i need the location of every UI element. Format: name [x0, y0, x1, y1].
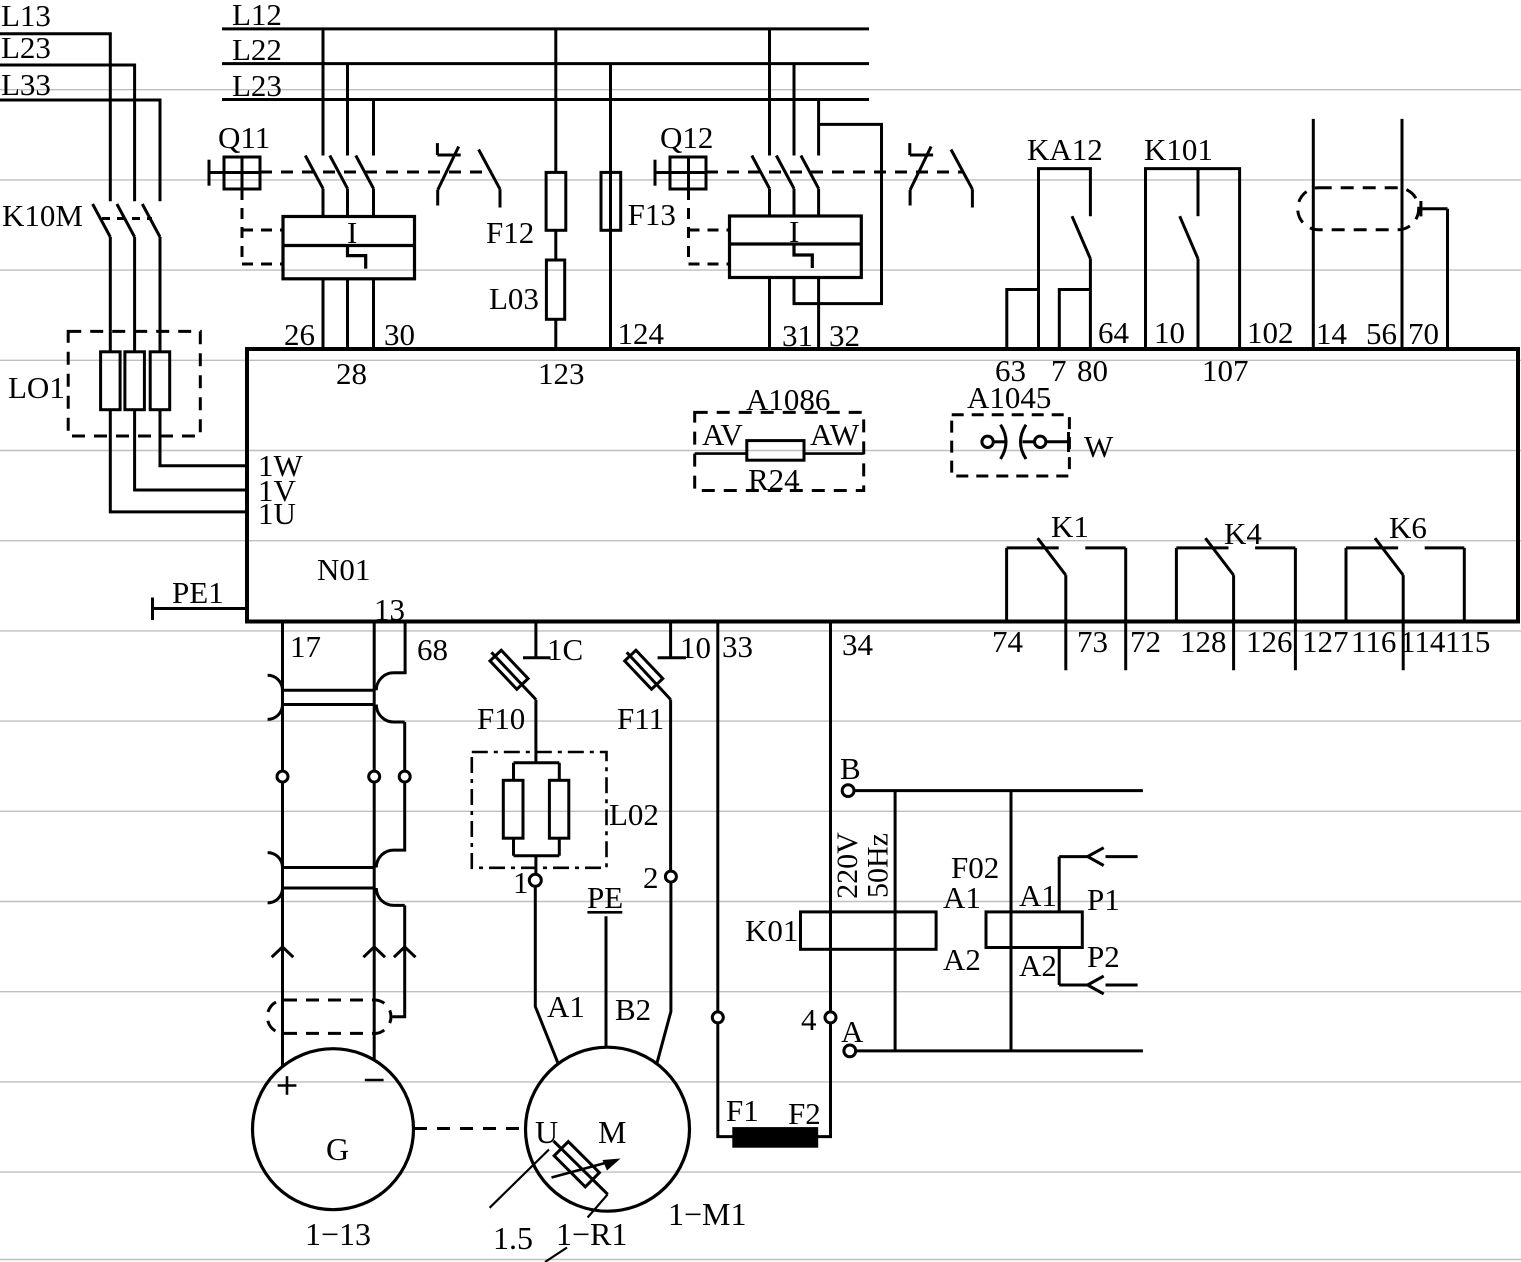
wire L33 — [0, 100, 160, 201]
svg-text:10: 10 — [1154, 315, 1185, 350]
dashed cable clamp at generator — [267, 1000, 391, 1033]
svg-text:B: B — [840, 751, 861, 786]
svg-text:A2: A2 — [1019, 948, 1057, 983]
connector A1045 right pole — [1035, 436, 1046, 447]
rheostat 1-R1 lead — [554, 1141, 608, 1194]
wire 68 drain between screens — [403, 722, 406, 771]
connector pole circle drain — [399, 771, 410, 782]
svg-text:KA12: KA12 — [1027, 132, 1103, 167]
reactor LO1 coil 2 — [125, 352, 144, 410]
contactor I (left) body — [283, 217, 415, 279]
svg-text:G: G — [326, 1131, 349, 1167]
wire B2 to motor — [657, 882, 671, 1064]
breaker Q12 trip release symbol — [910, 143, 933, 205]
breaker Q12 pole 3 contact — [801, 156, 819, 217]
svg-text:AV: AV — [702, 417, 743, 452]
wire 68 shield drain upper — [376, 622, 405, 691]
reactor LO1 coil 3 — [150, 352, 170, 410]
breaker Q12 auxiliary blade — [951, 150, 972, 208]
wire 31 to N01 — [768, 278, 771, 350]
terminal B circle — [842, 785, 854, 797]
resistor L02 top bus — [514, 763, 560, 781]
svg-text:127: 127 — [1302, 624, 1349, 659]
svg-text:W: W — [1084, 429, 1114, 464]
svg-text:M: M — [598, 1114, 626, 1150]
resistor block L02 dash-dot enclosure — [472, 752, 607, 868]
svg-text:30: 30 — [384, 317, 415, 352]
svg-text:56: 56 — [1366, 316, 1397, 351]
wire 14 — [1312, 119, 1315, 350]
svg-text:33: 33 — [722, 629, 753, 664]
svg-text:R24: R24 — [748, 462, 800, 497]
wire armature to generator — [373, 622, 376, 1060]
controller N01 enclosure — [247, 349, 1518, 622]
wire 17 to generator — [281, 622, 284, 1068]
svg-text:PE1: PE1 — [172, 575, 224, 610]
svg-text:L12: L12 — [232, 0, 282, 32]
svg-text:P1: P1 — [1087, 882, 1120, 917]
breaker Q11 linkage dashed line — [260, 171, 492, 174]
wire L23 to Q11 pole3 — [372, 100, 375, 156]
cable screen lower symbol — [268, 853, 405, 906]
cable screen upper symbol — [268, 675, 405, 722]
wire L13 — [0, 34, 110, 202]
svg-text:A1: A1 — [547, 989, 585, 1024]
breaker Q12 operating head — [655, 157, 706, 189]
svg-text:A2: A2 — [943, 942, 981, 977]
svg-text:1.5: 1.5 — [493, 1220, 533, 1256]
svg-text:L23: L23 — [1, 30, 51, 65]
wire R24 to AW — [804, 452, 864, 455]
svg-text:A1: A1 — [1019, 878, 1057, 913]
wire 26 to N01 — [322, 279, 325, 349]
svg-text:F12: F12 — [486, 215, 534, 250]
wire F10 to L02 — [534, 700, 537, 763]
svg-text:70: 70 — [1408, 316, 1439, 351]
svg-text:123: 123 — [538, 356, 585, 391]
svg-text:124: 124 — [618, 316, 665, 351]
wire PE1 — [153, 598, 248, 621]
svg-text:64: 64 — [1098, 315, 1130, 350]
svg-text:50Hz: 50Hz — [862, 833, 895, 898]
wire 32 to N01 — [817, 278, 820, 350]
fuse link F1-F2 black body — [733, 1128, 818, 1148]
svg-text:73: 73 — [1077, 624, 1108, 659]
wire 68 drain to clamp — [393, 905, 405, 1016]
module A1086 dashed enclosure — [695, 412, 864, 490]
svg-text:AW: AW — [810, 417, 860, 452]
svg-text:13: 13 — [374, 592, 405, 627]
wire 33 upper — [716, 622, 719, 1013]
breaker Q12 linkage dashes to contactor — [689, 189, 730, 264]
svg-text:B2: B2 — [615, 992, 651, 1027]
inductor L03 body — [546, 260, 564, 319]
resistor L02 element 1 — [503, 780, 523, 838]
wire bypass loop pole2 to pole3 input — [794, 124, 882, 303]
svg-text:68: 68 — [417, 632, 448, 667]
terminal A circle — [844, 1045, 856, 1057]
breaker Q12 pole 2 contact — [776, 156, 794, 217]
svg-text:F2: F2 — [788, 1096, 821, 1131]
wire 68 drain to lower screen — [376, 782, 404, 867]
bus A — [856, 1049, 1143, 1052]
resistor L02 element 2 — [549, 780, 568, 838]
motor M circle — [526, 1047, 690, 1211]
svg-text:A1: A1 — [943, 880, 981, 915]
wire 56 — [1401, 119, 1404, 350]
rheostat 1-R1 body — [554, 1142, 599, 1187]
svg-text:126: 126 — [1246, 624, 1293, 659]
svg-text:L13: L13 — [1, 0, 51, 33]
svg-text:L33: L33 — [1, 67, 51, 102]
leader stroke bottom — [545, 1248, 567, 1262]
svg-text:26: 26 — [284, 317, 315, 352]
reactor LO1 coil 1 — [101, 352, 121, 410]
resistor R24 body — [747, 441, 804, 461]
svg-text:34: 34 — [842, 627, 874, 662]
contactor K10M pole 1 — [93, 204, 111, 331]
svg-text:1C: 1C — [547, 632, 583, 667]
contactor K10M pole 3 — [142, 204, 160, 331]
breaker Q11 pole 1 contact — [305, 156, 323, 217]
fuse switch F10 blade — [491, 652, 536, 699]
svg-text:116: 116 — [1351, 624, 1396, 659]
plug contact P2 — [1059, 948, 1137, 994]
wire L22 to Q11 pole2 — [346, 64, 349, 156]
svg-text:LO1: LO1 — [8, 370, 65, 405]
terminal 1 circle — [529, 874, 541, 886]
svg-text:F13: F13 — [628, 197, 676, 232]
wire L22 to Q12 pole2 — [793, 64, 796, 156]
fuse switch F10 fixed contact — [523, 622, 551, 658]
svg-text:102: 102 — [1247, 315, 1294, 350]
fuse switch F11 body — [625, 650, 663, 689]
breaker Q12 pole 1 contact — [752, 156, 770, 217]
relay coil F02 body — [986, 912, 1082, 948]
svg-text:L22: L22 — [232, 32, 282, 67]
wire B to A through K01 — [894, 791, 897, 1051]
svg-text:Q11: Q11 — [218, 120, 270, 155]
wire 63 jumper — [1007, 290, 1039, 351]
wire L23 — [0, 65, 135, 201]
svg-text:1−M1: 1−M1 — [668, 1196, 747, 1232]
arrow chevron armature — [363, 947, 385, 957]
breaker Q11 auxiliary blade — [479, 150, 500, 208]
svg-text:A1045: A1045 — [967, 380, 1051, 415]
svg-text:K101: K101 — [1144, 132, 1213, 167]
wire LO1 phase3 down to 1W — [160, 331, 247, 465]
generator G circle — [253, 1049, 414, 1210]
svg-text:K1: K1 — [1051, 509, 1089, 544]
rheostat 1-R1 arrow — [552, 1159, 621, 1178]
resistor L02 bottom bus — [514, 838, 560, 874]
svg-text:K10M: K10M — [2, 198, 83, 233]
svg-text:74: 74 — [992, 624, 1024, 659]
connector pole circle wire17 — [277, 771, 288, 782]
module A1045 dashed enclosure — [952, 415, 1070, 476]
fuse F12 body — [546, 172, 566, 230]
wire A1 to motor — [535, 886, 558, 1063]
svg-text:4: 4 — [801, 1002, 817, 1037]
generator plus sign — [278, 1076, 297, 1095]
breaker Q11 operating head — [209, 157, 260, 189]
wire 33 to F1 — [718, 1023, 733, 1137]
wire PE to motor — [605, 916, 608, 1047]
fuse F12 wire — [554, 29, 557, 349]
relay contact K6 — [1346, 538, 1464, 670]
svg-text:17: 17 — [290, 629, 321, 664]
svg-text:1−R1: 1−R1 — [556, 1216, 627, 1252]
arrow chevron drain — [394, 947, 416, 957]
wire LO1 phase2 down to 1V — [135, 331, 247, 490]
breaker Q11 pole 2 contact — [330, 156, 348, 217]
dashed cable clamp enclosure — [1298, 188, 1419, 230]
terminal 2 circle — [665, 871, 676, 882]
svg-text:1−13: 1−13 — [305, 1216, 371, 1252]
svg-text:1U: 1U — [258, 496, 296, 531]
fuse F13 wire — [609, 64, 612, 349]
relay contact K1 — [1007, 538, 1126, 670]
svg-text:7: 7 — [1051, 353, 1067, 388]
svg-text:PE: PE — [587, 880, 623, 915]
arrow chevron wire17 — [272, 947, 294, 957]
fuse switch F11 fixed contact — [658, 622, 686, 658]
svg-text:I: I — [347, 215, 357, 250]
svg-text:107: 107 — [1202, 353, 1249, 388]
relay contact K101 blade — [1180, 169, 1198, 350]
contactor K10M linkage dashes — [102, 217, 152, 220]
svg-text:I: I — [789, 214, 799, 249]
wire to W — [1046, 432, 1069, 452]
svg-text:220V: 220V — [831, 832, 864, 899]
svg-text:P2: P2 — [1087, 939, 1120, 974]
svg-text:F10: F10 — [477, 701, 525, 736]
svg-text:A: A — [841, 1014, 864, 1049]
wire L12 to Q12 pole1 — [768, 29, 771, 156]
svg-text:1: 1 — [513, 865, 529, 900]
svg-text:F11: F11 — [617, 701, 664, 736]
wire B to A through F02 — [1010, 791, 1013, 1051]
fuse switch F11 blade — [627, 652, 671, 699]
generator minus sign — [365, 1079, 384, 1082]
wire 28 to N01 — [346, 279, 349, 349]
svg-text:28: 28 — [336, 356, 367, 391]
reactor LO1 dashed enclosure — [68, 331, 200, 436]
wire 30 to N01 — [372, 279, 375, 349]
breaker Q11 pole 3 contact — [356, 156, 374, 217]
svg-text:72: 72 — [1130, 624, 1161, 659]
connector A1045 left pole — [982, 436, 993, 447]
wire AV to R24 — [695, 452, 747, 455]
fuse F13 body — [601, 172, 621, 230]
bus B — [854, 789, 1143, 792]
relay contact KA12 frame — [1039, 169, 1091, 350]
breaker Q12 linkage dashed line — [706, 171, 963, 174]
svg-text:14: 14 — [1316, 316, 1348, 351]
relay contact K101 frame — [1146, 169, 1240, 350]
svg-text:128: 128 — [1180, 624, 1227, 659]
fuse switch F10 body — [490, 650, 528, 689]
svg-text:U: U — [535, 1114, 558, 1150]
wire 4 to F2 — [818, 1023, 831, 1137]
wire 80 jumper — [1059, 290, 1090, 351]
svg-text:Q12: Q12 — [660, 120, 713, 155]
open point on wire 33 — [712, 1012, 723, 1023]
svg-text:F1: F1 — [726, 1093, 759, 1128]
wire L12 to Q11 pole1 — [322, 29, 325, 156]
svg-text:114: 114 — [1400, 624, 1446, 659]
svg-text:L02: L02 — [609, 797, 659, 832]
wire LO1 phase1 down to 1U — [110, 331, 247, 512]
svg-text:115: 115 — [1445, 624, 1490, 659]
breaker Q11 trip release symbol — [437, 143, 460, 205]
svg-text:80: 80 — [1077, 353, 1108, 388]
relay coil K01 body — [801, 912, 937, 949]
contactor I (right) body — [730, 216, 862, 278]
svg-text:K01: K01 — [745, 913, 798, 948]
wire F11 to terminal 2 — [669, 700, 672, 872]
leader line 1-R1 label — [588, 1194, 608, 1217]
svg-text:N01: N01 — [317, 552, 370, 587]
node PE label — [587, 880, 623, 915]
shaft coupling dashed — [414, 1127, 526, 1130]
svg-text:K4: K4 — [1224, 516, 1262, 551]
terminal 4 circle — [825, 1012, 836, 1023]
wire 70 from clamp — [1421, 201, 1448, 350]
bus L12 — [222, 27, 869, 30]
bus L22 — [222, 62, 869, 65]
wire 34 — [829, 622, 832, 1013]
leader line 1.5 — [490, 1150, 549, 1208]
relay contact K4 — [1176, 538, 1295, 670]
svg-text:L03: L03 — [489, 281, 539, 316]
svg-text:L23: L23 — [232, 68, 282, 103]
bus L23 — [222, 98, 869, 101]
svg-text:2: 2 — [643, 860, 659, 895]
connector A1045 symbol — [993, 425, 1034, 459]
breaker Q11 linkage dashes to contactor — [242, 189, 283, 264]
wire L23 to Q12 pole3 — [817, 100, 820, 156]
connector pole circle armature — [369, 771, 380, 782]
svg-text:K6: K6 — [1389, 510, 1427, 545]
relay contact KA12 blade — [1072, 216, 1090, 350]
svg-text:10: 10 — [680, 630, 711, 665]
contactor K10M pole 2 — [117, 204, 135, 331]
plug contact P1 — [1059, 848, 1137, 912]
